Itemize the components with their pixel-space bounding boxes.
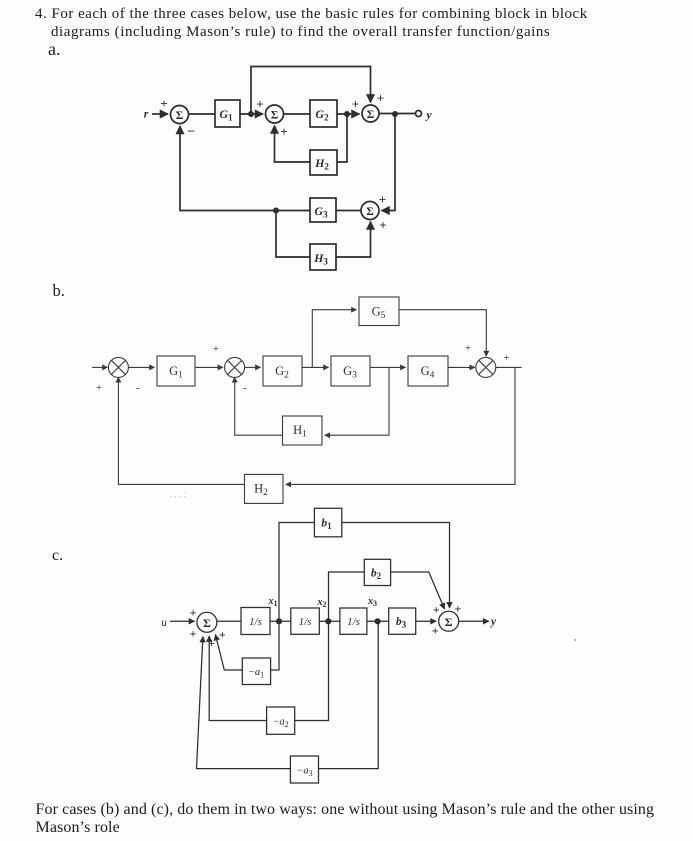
svg-text:+: + <box>503 352 509 364</box>
svg-text:+: + <box>379 192 386 207</box>
svg-text:Σ: Σ <box>366 206 374 218</box>
svg-text:+: + <box>190 627 197 641</box>
svg-text:Σ: Σ <box>176 110 184 122</box>
svg-text:+: + <box>96 382 102 394</box>
svg-text:1/s: 1/s <box>347 616 360 628</box>
svg-text:+: + <box>256 97 263 112</box>
svg-text:+: + <box>280 124 287 139</box>
svg-text:+: + <box>352 97 359 112</box>
svg-text:+: + <box>208 636 215 650</box>
svg-text:G1: G1 <box>169 364 183 381</box>
svg-text:H3: H3 <box>313 251 328 267</box>
svg-text:Σ: Σ <box>271 110 279 122</box>
svg-text:-: - <box>243 382 247 394</box>
svg-text:G2: G2 <box>275 364 289 381</box>
svg-text:G1: G1 <box>219 107 233 123</box>
svg-text:+: + <box>465 343 471 355</box>
svg-text:+: + <box>190 606 197 620</box>
svg-text:+: + <box>213 343 219 355</box>
svg-text:1/s: 1/s <box>249 616 262 628</box>
svg-text:+: + <box>160 96 167 111</box>
svg-text:Σ: Σ <box>367 109 375 121</box>
svg-text:H2: H2 <box>314 156 329 172</box>
svg-text:r: r <box>144 109 149 121</box>
svg-text:+: + <box>219 627 226 641</box>
svg-text:-: - <box>136 382 140 394</box>
svg-text:G2: G2 <box>315 107 329 123</box>
svg-text:+: + <box>379 218 386 233</box>
svg-text:+: + <box>433 603 440 617</box>
svg-text:G3: G3 <box>314 204 328 220</box>
svg-text:H1: H1 <box>293 423 307 440</box>
svg-text:G4: G4 <box>421 364 435 381</box>
svg-text:G3: G3 <box>343 364 357 381</box>
svg-text:b1: b1 <box>321 518 332 532</box>
svg-text:b3: b3 <box>396 616 407 630</box>
svg-text:u: u <box>161 617 167 629</box>
svg-text:y: y <box>489 616 497 628</box>
svg-text:G5: G5 <box>372 305 386 322</box>
svg-text:−a3: −a3 <box>296 766 312 779</box>
svg-text:+: + <box>454 602 461 616</box>
svg-text:. , . :: . , . : <box>170 489 186 499</box>
svg-text:y: y <box>424 108 432 122</box>
svg-text:b2: b2 <box>371 568 382 582</box>
svg-text:Σ: Σ <box>203 616 211 630</box>
svg-text:+: + <box>432 623 439 637</box>
svg-text:x2: x2 <box>317 597 327 609</box>
svg-text:−a1: −a1 <box>248 667 264 680</box>
svg-text:−a2: −a2 <box>272 717 288 730</box>
svg-text:Σ: Σ <box>445 615 453 629</box>
svg-text:–: – <box>187 122 195 137</box>
svg-text:x1: x1 <box>268 596 278 608</box>
svg-text:+: + <box>377 91 384 106</box>
svg-text:x3: x3 <box>367 596 377 608</box>
svg-text:1/s: 1/s <box>299 616 312 628</box>
svg-text:H2: H2 <box>254 482 268 499</box>
